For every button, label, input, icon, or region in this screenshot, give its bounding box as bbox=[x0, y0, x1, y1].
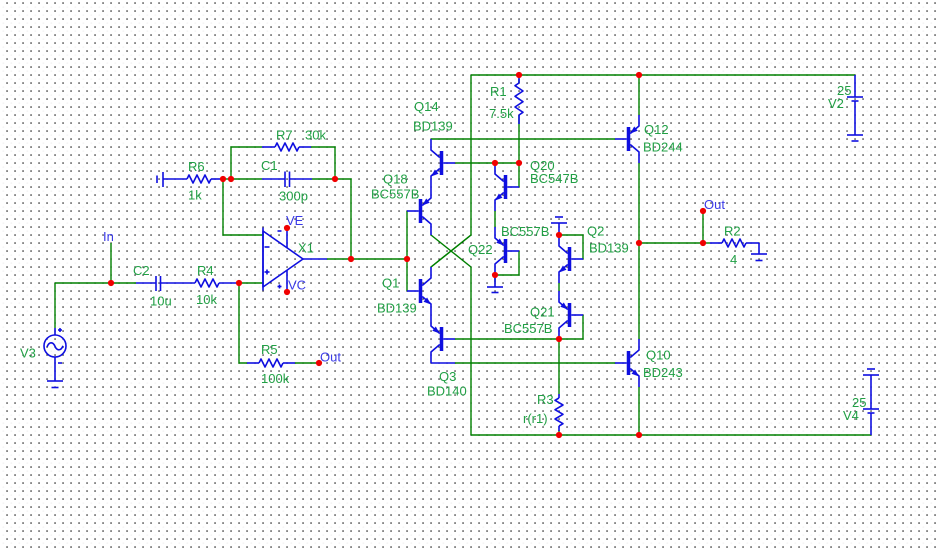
svg-text:R6: R6 bbox=[188, 159, 205, 174]
svg-text:300p: 300p bbox=[279, 189, 308, 204]
svg-text:V4: V4 bbox=[843, 408, 859, 423]
svg-text:10u: 10u bbox=[150, 294, 172, 309]
svg-text:Out: Out bbox=[704, 197, 725, 212]
svg-text:C1: C1 bbox=[261, 158, 278, 173]
svg-text:10k: 10k bbox=[196, 292, 217, 307]
svg-text:BD243: BD243 bbox=[643, 365, 683, 380]
svg-text:V3: V3 bbox=[20, 346, 36, 361]
svg-text:Q22: Q22 bbox=[468, 242, 493, 257]
svg-text:1k: 1k bbox=[188, 188, 202, 203]
svg-text:VE: VE bbox=[286, 213, 304, 228]
svg-text:V2: V2 bbox=[828, 96, 844, 111]
svg-text:BC547B: BC547B bbox=[530, 171, 578, 186]
svg-text:In: In bbox=[103, 229, 114, 244]
svg-text:R5: R5 bbox=[261, 342, 278, 357]
svg-text:Q14: Q14 bbox=[414, 99, 439, 114]
svg-text:BD139: BD139 bbox=[377, 301, 417, 316]
svg-text:Q1: Q1 bbox=[382, 276, 399, 291]
svg-text:R3: R3 bbox=[537, 392, 554, 407]
svg-text:BD244: BD244 bbox=[643, 140, 683, 155]
svg-text:BD139: BD139 bbox=[413, 119, 453, 134]
svg-text:Q2: Q2 bbox=[587, 224, 604, 239]
svg-text:BC557B: BC557B bbox=[501, 224, 549, 239]
svg-text:R1: R1 bbox=[490, 84, 507, 99]
svg-text:100k: 100k bbox=[261, 371, 290, 386]
svg-text:Q18: Q18 bbox=[383, 172, 408, 187]
svg-text:Q12: Q12 bbox=[644, 122, 669, 137]
svg-text:r(r1): r(r1) bbox=[523, 411, 548, 426]
svg-text:BD140: BD140 bbox=[427, 384, 467, 399]
svg-text:X1: X1 bbox=[298, 241, 314, 256]
svg-text:R2: R2 bbox=[724, 224, 741, 239]
svg-text:C2: C2 bbox=[133, 263, 150, 278]
svg-text:7.5k: 7.5k bbox=[489, 106, 514, 121]
svg-text:Out: Out bbox=[320, 350, 341, 365]
svg-text:Q3: Q3 bbox=[439, 369, 456, 384]
svg-text:Q10: Q10 bbox=[646, 348, 671, 363]
svg-text:BC557B: BC557B bbox=[504, 321, 552, 336]
svg-text:Q21: Q21 bbox=[530, 305, 555, 320]
svg-text:4: 4 bbox=[730, 252, 737, 267]
svg-text:BC557B: BC557B bbox=[371, 187, 419, 202]
svg-text:R4: R4 bbox=[197, 263, 214, 278]
svg-text:VC: VC bbox=[288, 278, 306, 293]
svg-text:R7: R7 bbox=[276, 128, 293, 143]
svg-text:BD139: BD139 bbox=[589, 241, 629, 256]
svg-text:30k: 30k bbox=[305, 128, 326, 143]
